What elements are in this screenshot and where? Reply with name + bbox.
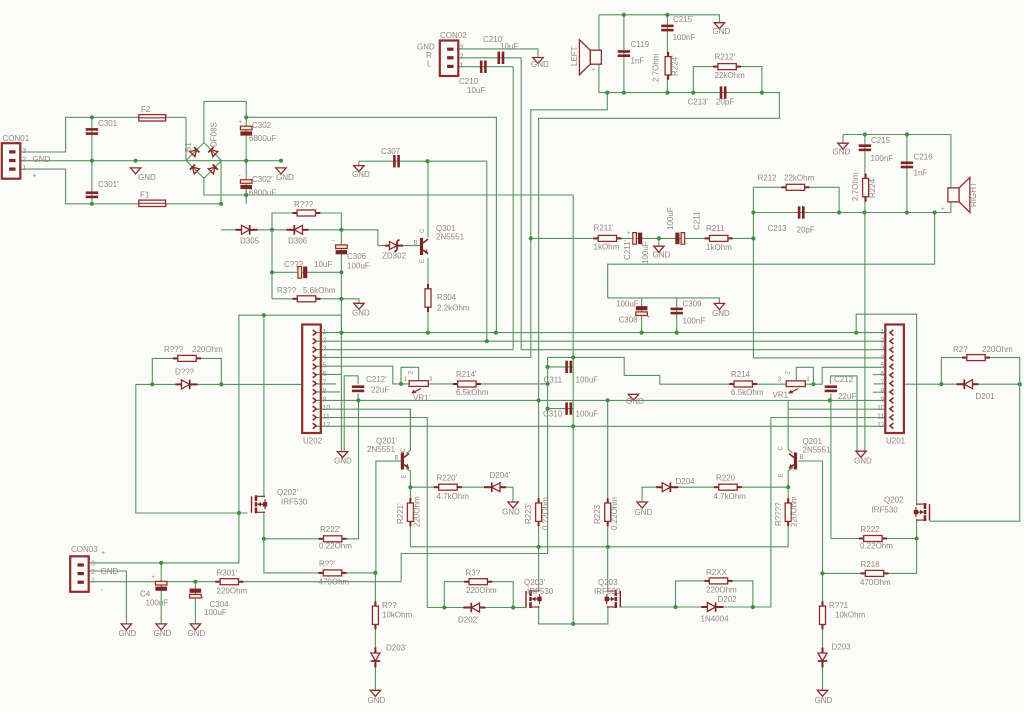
svg-text:3: 3	[429, 376, 433, 383]
svg-text:R2?: R2?	[953, 345, 968, 354]
svg-text:C302: C302	[252, 121, 272, 130]
svg-text:6: 6	[881, 371, 885, 378]
capacitor C301	[86, 128, 98, 135]
capacitor C210'	[498, 52, 505, 64]
svg-text:GND: GND	[334, 457, 352, 466]
wire bridge AC2 to F1 row	[220, 161, 222, 204]
wire R3?? 5.6k row	[272, 298, 341, 300]
capacitor C307	[393, 155, 400, 167]
ground sym C302 mid	[276, 168, 286, 174]
svg-text:C302': C302'	[252, 175, 273, 184]
wire spk R top row	[843, 134, 951, 136]
potentiometer VR1	[786, 381, 805, 394]
wire speaker R return	[539, 93, 780, 401]
bridge rectifier B1 DF08S	[186, 143, 222, 179]
svg-text:D204: D204	[676, 477, 696, 486]
fuse F1	[139, 200, 166, 206]
svg-text:0.22Ohm: 0.22Ohm	[319, 542, 352, 551]
svg-text:GND: GND	[138, 173, 156, 182]
svg-text:12: 12	[877, 422, 885, 429]
resistor R214'	[453, 381, 481, 387]
svg-text:9: 9	[323, 397, 327, 404]
wire Q202' drain	[263, 315, 265, 497]
svg-text:R301': R301'	[217, 569, 238, 578]
ground sym C211'	[654, 246, 664, 252]
wire Q201' base	[376, 461, 401, 573]
svg-text:R220': R220'	[437, 474, 458, 483]
svg-text:1: 1	[806, 376, 810, 383]
wire Q201 base	[799, 461, 823, 573]
ground sym spkR	[838, 143, 848, 149]
svg-text:F1: F1	[140, 191, 150, 200]
wire R223' drop	[538, 400, 540, 592]
ground sym D203'	[370, 690, 380, 696]
wire R223 drop	[607, 400, 609, 592]
resistor R211'	[593, 235, 621, 241]
svg-text:D???: D???	[175, 368, 195, 377]
wire pin3 row left	[316, 349, 513, 351]
svg-text:VR1: VR1	[773, 391, 789, 400]
wire Q202 source	[916, 519, 918, 539]
svg-text:470Ohm: 470Ohm	[860, 578, 891, 587]
svg-text:GND: GND	[531, 60, 549, 69]
svg-text:10uF: 10uF	[467, 86, 485, 95]
wire C216 chain	[906, 135, 908, 213]
ground sym C309	[714, 303, 724, 309]
svg-text:10uF: 10uF	[314, 260, 332, 269]
svg-text:IRF530: IRF530	[527, 587, 554, 596]
svg-text:100uF: 100uF	[576, 410, 599, 419]
ground sym U202	[337, 452, 347, 458]
capacitor C211	[675, 233, 684, 245]
ground sym C307	[354, 166, 364, 172]
resistor R??' 470	[319, 570, 347, 576]
svg-text:F2: F2	[141, 105, 151, 114]
transistor Q203'	[526, 590, 542, 608]
svg-text:R222': R222'	[320, 525, 341, 534]
wire R221' chain	[409, 487, 411, 547]
svg-text:10: 10	[877, 405, 885, 412]
svg-text:20pF: 20pF	[797, 226, 815, 235]
transistor Q301	[420, 238, 428, 255]
wire C308 hang	[641, 298, 643, 333]
resistor R2? right loop	[962, 355, 990, 361]
wire CON01 pin3 to F2 row	[20, 117, 186, 152]
svg-text:6800uF: 6800uF	[249, 134, 276, 143]
ground sym power mid	[130, 168, 140, 174]
capacitor C4	[155, 581, 167, 590]
wire Q202 drain chain	[856, 314, 916, 505]
resistor R218	[861, 570, 889, 576]
svg-text:10uF: 10uF	[500, 42, 518, 51]
svg-text:1nF: 1nF	[914, 169, 928, 178]
wire pin8 stub U201	[873, 391, 886, 393]
svg-text:C???: C???	[284, 260, 304, 269]
svg-text:GND: GND	[101, 567, 119, 576]
wire C??? 10uF row	[272, 271, 341, 273]
svg-text:100uF: 100uF	[666, 207, 675, 230]
svg-text:R212: R212	[758, 174, 778, 183]
wire D202' row	[427, 607, 526, 609]
svg-text:C119: C119	[631, 40, 650, 49]
wire spk L vertical	[598, 15, 600, 50]
wire C212' top hook	[344, 376, 358, 452]
wire F2 out to bridge AC1	[185, 117, 187, 160]
svg-text:1: 1	[91, 578, 95, 585]
svg-text:5: 5	[323, 363, 327, 370]
wire gnd stub power	[341, 299, 359, 304]
svg-text:3: 3	[22, 148, 26, 155]
ground sym C4	[156, 624, 166, 630]
svg-text:DF08S: DF08S	[210, 122, 219, 147]
capacitor C301'	[86, 191, 98, 198]
svg-text:100uF: 100uF	[616, 300, 639, 309]
svg-text:B1: B1	[184, 142, 193, 152]
svg-text:+: +	[101, 550, 105, 557]
potentiometer VR1'	[409, 381, 428, 394]
svg-text:R223': R223'	[524, 503, 533, 524]
svg-text:R2XX: R2XX	[706, 568, 728, 577]
svg-text:1N4004: 1N4004	[701, 615, 730, 624]
svg-text:2: 2	[785, 371, 792, 375]
svg-text:GND: GND	[368, 696, 386, 705]
wire C301 branch	[91, 117, 93, 204]
wire Q202' source	[264, 511, 311, 573]
wire v1 C307 to pin2row	[486, 161, 488, 341]
connector U202	[302, 325, 321, 434]
wire Q202' gate feed	[136, 512, 248, 514]
svg-text:ZD302: ZD302	[382, 252, 407, 261]
svg-text:GND: GND	[154, 629, 172, 638]
wire R224 gnd drop	[864, 213, 866, 452]
svg-text:R214': R214'	[456, 370, 477, 379]
wire C212 bottom chain	[830, 394, 832, 539]
svg-text:GND: GND	[815, 696, 833, 705]
wire v4 C210' down	[520, 58, 522, 350]
transistor Q202'	[252, 495, 268, 513]
transistor Q201'	[401, 453, 409, 470]
svg-text:2.2kOhm: 2.2kOhm	[437, 304, 470, 313]
svg-text:R211': R211'	[594, 224, 615, 233]
svg-text:1: 1	[323, 329, 327, 336]
svg-text:GND: GND	[626, 397, 644, 406]
capacitor C306	[336, 245, 348, 254]
wire pin7 stub U201	[873, 383, 885, 385]
resistor R211	[705, 235, 733, 241]
svg-text:LEFT: LEFT	[570, 46, 579, 66]
wire R220' D204' row	[410, 487, 513, 502]
diode D203'	[371, 648, 381, 668]
wire Q201' collector	[406, 409, 410, 453]
svg-text:22uF: 22uF	[371, 386, 389, 395]
wire C309 hang	[676, 298, 678, 333]
wire GND rail CON01 pin2	[20, 160, 281, 162]
svg-text:1: 1	[22, 165, 26, 172]
wire R row above D306	[272, 213, 341, 230]
svg-text:GND: GND	[352, 309, 370, 318]
ground sym CON02	[533, 58, 543, 64]
svg-text:R??1: R??1	[829, 601, 849, 610]
wire R221m chain	[787, 487, 789, 547]
svg-text:GND: GND	[833, 148, 851, 157]
wire spk R vertical	[950, 135, 952, 189]
svg-text:C307: C307	[381, 147, 401, 156]
svg-text:E: E	[402, 474, 408, 478]
resistor R221'	[407, 498, 413, 526]
svg-text:C4: C4	[140, 590, 151, 599]
svg-text:CON01: CON01	[3, 134, 30, 143]
svg-text:B: B	[800, 455, 804, 461]
wire V+ bus top	[246, 117, 496, 332]
svg-text:2.7Ohm: 2.7Ohm	[851, 172, 860, 201]
wire v3 C210 down	[512, 67, 514, 350]
wire pin8 stub U202	[316, 391, 340, 393]
svg-text:D203': D203'	[386, 644, 407, 653]
svg-text:1: 1	[881, 329, 885, 336]
wire Q201 emitter	[788, 467, 793, 487]
svg-text:GND: GND	[188, 629, 206, 638]
svg-text:+: +	[33, 173, 37, 180]
junction dots pin1 row	[339, 331, 858, 335]
wire bridge + to C302 top	[204, 101, 246, 143]
svg-text:6.5kOhm: 6.5kOhm	[731, 388, 764, 397]
resistor R304	[425, 284, 431, 312]
svg-text:2: 2	[22, 157, 26, 164]
svg-text:100nF: 100nF	[871, 154, 894, 163]
svg-text:R???: R???	[164, 345, 184, 354]
wire R214' row	[428, 383, 547, 385]
svg-text:2N5551: 2N5551	[367, 445, 396, 454]
wire Q301 emitter R304	[427, 258, 429, 333]
svg-text:R218: R218	[861, 560, 881, 569]
svg-text:D306: D306	[288, 237, 308, 246]
ground sym D204'	[508, 502, 518, 508]
svg-text:C211': C211'	[623, 239, 632, 260]
svg-text:C215': C215'	[673, 15, 694, 24]
resistor R214	[729, 381, 757, 387]
svg-text:C216: C216	[914, 153, 934, 162]
svg-text:470Ohm: 470Ohm	[319, 578, 350, 587]
svg-text:1nF: 1nF	[631, 57, 645, 66]
svg-text:R???: R???	[294, 200, 314, 209]
wire power gnd vertical	[340, 230, 342, 452]
wire x753 vertical	[753, 187, 885, 358]
wire pin10 row right	[788, 408, 885, 410]
resistor R224'	[665, 52, 671, 80]
svg-text:R224': R224'	[671, 55, 680, 76]
wire C215' R224' chain	[666, 15, 668, 93]
wire C307 gnd stub	[358, 161, 360, 165]
resistor R223'	[536, 498, 542, 526]
svg-text:10: 10	[323, 405, 331, 412]
wire spk R to C308 row	[608, 213, 935, 298]
svg-text:R????: R????	[774, 502, 783, 526]
svg-text:U201: U201	[886, 437, 906, 446]
svg-text:+: +	[627, 231, 631, 237]
junction dots bottom misc	[159, 13, 909, 584]
wire spk R bottom	[950, 201, 952, 213]
wire CON02 pin1 row	[457, 66, 513, 68]
svg-text:11: 11	[323, 414, 330, 421]
capacitor C304	[190, 589, 202, 598]
junction dots pin9 row	[356, 398, 832, 402]
resistor R3? 220	[464, 579, 492, 585]
transistor Q203	[605, 590, 621, 608]
svg-text:R223: R223	[593, 504, 602, 524]
svg-text:5: 5	[881, 363, 885, 370]
ground sym power2	[354, 303, 364, 309]
svg-text:100uF: 100uF	[146, 599, 169, 608]
svg-text:20pF: 20pF	[716, 98, 734, 107]
wire bridge minus rail	[204, 177, 573, 195]
svg-text:100nF: 100nF	[673, 33, 696, 42]
wire pin10 row left	[316, 409, 410, 450]
diode D204'	[484, 482, 506, 492]
wire C307 row	[359, 160, 487, 162]
wire R220 D204 row	[642, 487, 788, 502]
wire D201 loop up	[941, 358, 1019, 385]
svg-text:8: 8	[323, 388, 327, 395]
wire Q202 gate	[930, 384, 1020, 521]
resistor R223	[605, 498, 611, 526]
svg-text:GND: GND	[352, 170, 370, 179]
wire Q203' gate	[513, 607, 526, 609]
wire R10k' chain	[374, 573, 376, 690]
svg-text:R3??: R3??	[277, 286, 297, 295]
svg-text:1: 1	[404, 376, 408, 383]
wire R222' row	[264, 400, 359, 538]
wire mid segment to staircase	[548, 357, 787, 384]
wire CON02 pin2 row	[457, 57, 521, 59]
wire R470' row	[311, 572, 376, 574]
junction dots D row	[270, 159, 430, 301]
svg-text:C211: C211	[693, 211, 702, 230]
svg-text:C210: C210	[459, 77, 479, 86]
svg-text:0.22Ohm: 0.22Ohm	[610, 497, 619, 530]
svg-text:C311: C311	[544, 376, 563, 385]
resistor R221m	[785, 498, 791, 526]
svg-text:3: 3	[91, 561, 95, 568]
svg-text:9: 9	[881, 397, 885, 404]
wire CON02 pin3 gnd	[457, 49, 538, 58]
diode D202	[701, 602, 723, 612]
wire Q301 collector	[427, 161, 429, 237]
junction dots pin2 row	[485, 339, 489, 343]
svg-text:R224: R224	[868, 178, 877, 198]
wire pin7 stub U202	[316, 383, 336, 385]
svg-text:C: C	[401, 448, 407, 453]
ground sym spkL	[714, 23, 724, 29]
resistor R222	[859, 536, 887, 542]
svg-text:12: 12	[323, 422, 331, 429]
wire C119 chain	[623, 15, 625, 93]
svg-text:2.7Ohm: 2.7Ohm	[652, 53, 661, 82]
svg-text:22uF: 22uF	[838, 392, 856, 401]
svg-text:R212': R212'	[715, 53, 736, 62]
wire C302 stack	[245, 117, 247, 204]
wire CON03 pin2 gnd	[89, 571, 126, 624]
svg-text:6800uF: 6800uF	[249, 189, 276, 198]
wire pin5 feed to VR1'	[316, 366, 409, 384]
svg-text:IRF530: IRF530	[281, 498, 308, 507]
svg-text:4.7kOhm: 4.7kOhm	[437, 492, 470, 501]
connector U201	[885, 325, 904, 434]
resistor R?? 10k	[372, 601, 378, 629]
resistor R2XX	[705, 578, 733, 584]
wire output bus x573	[572, 195, 574, 624]
capacitor C302	[240, 126, 252, 135]
svg-text:GND: GND	[635, 508, 653, 517]
capacitor C213	[798, 206, 805, 218]
fuse F2	[139, 115, 166, 121]
capacitor C119	[618, 50, 630, 57]
resistor R212'	[713, 64, 741, 70]
svg-text:R214: R214	[731, 370, 751, 379]
svg-text:Q202: Q202	[884, 496, 904, 505]
svg-text:7: 7	[881, 380, 885, 387]
wire R222 row	[831, 538, 917, 540]
diode D203	[818, 648, 828, 668]
wire C212 top hook	[831, 376, 858, 451]
svg-text:E: E	[420, 259, 426, 263]
svg-text:1: 1	[460, 62, 464, 69]
speaker LEFT	[579, 40, 601, 75]
svg-text:CON03: CON03	[71, 545, 98, 554]
diode D201	[957, 379, 979, 389]
junction dots pin7 rows	[150, 382, 1022, 387]
svg-text:100uF: 100uF	[347, 262, 370, 271]
connector CON01	[2, 143, 21, 179]
svg-text:100uF: 100uF	[641, 241, 650, 264]
svg-text:C213: C213	[768, 224, 788, 233]
svg-text:C: C	[779, 446, 785, 451]
svg-text:IRF530: IRF530	[594, 587, 621, 596]
wire pin1 V+ row	[316, 332, 885, 334]
svg-text:+: +	[647, 315, 651, 321]
wire output rail y547	[410, 546, 788, 548]
wire pin5 feed to VR1	[813, 367, 885, 384]
diode D202'	[464, 603, 486, 613]
resistor R3?? 5.6k	[293, 296, 321, 302]
wire v5 speaker L feedback	[531, 93, 608, 358]
capacitor C211'	[633, 233, 642, 245]
wire R211 row	[531, 237, 754, 239]
svg-text:10kOhm: 10kOhm	[382, 611, 413, 620]
svg-text:220Ohm: 220Ohm	[706, 586, 737, 595]
svg-text:6.5kOhm: 6.5kOhm	[456, 388, 489, 397]
resistor R??? power	[292, 210, 320, 216]
wire C311 left chain	[401, 357, 547, 581]
svg-text:4: 4	[323, 354, 327, 361]
ground sym D203	[817, 690, 827, 696]
wire TL loop	[239, 315, 342, 513]
svg-text:GND: GND	[854, 457, 872, 466]
svg-text:2N5551: 2N5551	[436, 233, 465, 242]
wire pin2 row	[316, 340, 885, 342]
wire spk R drive row	[753, 212, 951, 214]
ground sym CON03 p2	[121, 624, 131, 630]
svg-text:0.22Ohm: 0.22Ohm	[860, 542, 893, 551]
svg-text:R??: R??	[382, 601, 397, 610]
svg-text:RIGHT: RIGHT	[969, 182, 978, 207]
svg-text:R3?: R3?	[466, 569, 481, 578]
svg-text:4.7kOhm: 4.7kOhm	[714, 492, 747, 501]
transistor Q201	[789, 453, 797, 470]
wire D loop L up	[152, 358, 221, 384]
wire C4 hang	[160, 563, 162, 624]
capacitor C215	[859, 144, 871, 151]
wire R212' loop	[693, 67, 762, 93]
